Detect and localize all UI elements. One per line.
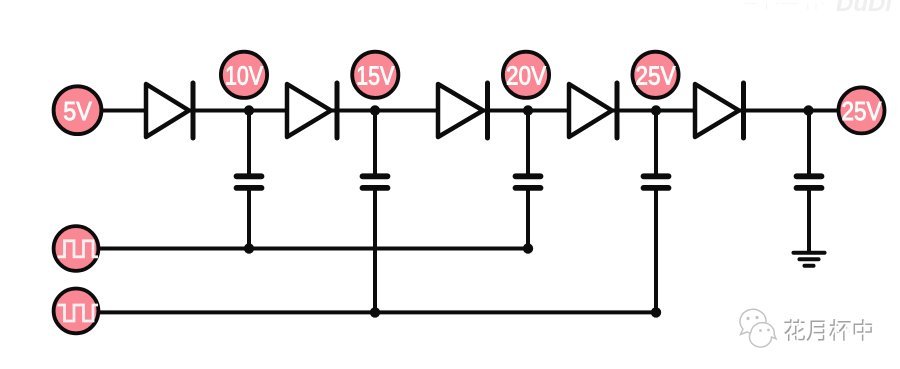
svg-text:花月杯中: 花月杯中	[785, 319, 876, 345]
svg-text:◦─ ╷ ◦── ╷╷◦: ◦─ ╷ ◦── ╷╷◦	[744, 0, 826, 10]
capacitor C5 (output)	[797, 111, 822, 253]
node 15V junction	[370, 105, 380, 115]
capacitor C2	[363, 111, 388, 313]
node output junction	[803, 105, 813, 115]
svg-text:5V: 5V	[63, 96, 92, 126]
svg-text:DuDi: DuDi	[836, 0, 893, 17]
node 20V junction	[523, 105, 533, 115]
diode D5	[695, 83, 744, 138]
node label 25V	[632, 52, 678, 98]
svg-text:10V: 10V	[225, 60, 264, 90]
wire: clock line phi2	[100, 310, 656, 314]
junction C2-phi2	[370, 307, 380, 317]
capacitor C1	[237, 111, 262, 249]
node label 15V	[352, 52, 398, 98]
svg-text:15V: 15V	[356, 60, 395, 90]
wire: main rail y=110.5	[103, 109, 837, 113]
terminal 25V output	[839, 87, 885, 133]
diode D4	[569, 83, 617, 138]
node label 20V	[503, 52, 549, 98]
svg-text:20V: 20V	[506, 60, 547, 90]
svg-text:25V: 25V	[842, 96, 883, 126]
node 25V junction	[651, 105, 661, 115]
junction C4-phi2	[651, 307, 661, 317]
wire: clock line phi1	[100, 247, 528, 251]
bottom-right watermark icon	[740, 309, 776, 347]
clock source phi2	[54, 289, 99, 334]
capacitor C3	[516, 111, 541, 249]
svg-text:25V: 25V	[636, 60, 677, 90]
clock source phi1	[54, 226, 99, 271]
diode D3	[438, 83, 488, 138]
capacitor C4	[644, 111, 669, 313]
diode D2	[287, 83, 337, 138]
terminal 5V	[54, 86, 102, 134]
junction C3-phi1	[523, 243, 533, 253]
node 10V junction	[244, 105, 254, 115]
junction C1-phi1	[244, 243, 254, 253]
diode D1	[146, 83, 193, 138]
ground	[794, 253, 825, 266]
top-right faint watermark	[744, 0, 893, 17]
node label 10V	[221, 52, 267, 98]
